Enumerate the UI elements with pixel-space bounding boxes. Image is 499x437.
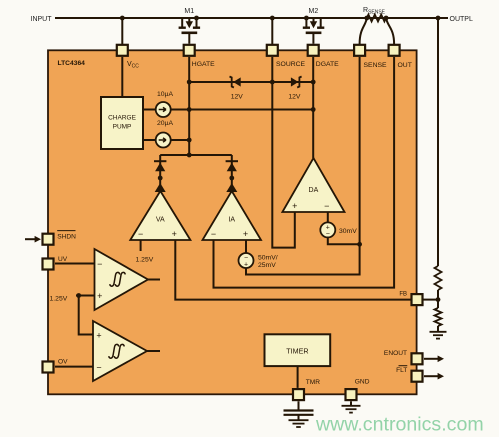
pin SOURCE [267, 45, 278, 56]
svg-text:SENSE: SENSE [364, 62, 388, 69]
wire: RSENSE left lead to SENSE pin [360, 18, 367, 44]
svg-text:−: − [211, 229, 216, 239]
wire: VA- reference stub [140, 240, 142, 251]
pin SENSE [354, 45, 365, 56]
arrow into SHDN [35, 236, 41, 243]
svg-text:OUTPL: OUTPL [450, 16, 473, 23]
wire: ENOUT output arrow line [424, 358, 439, 360]
svg-text:30mV: 30mV [339, 228, 357, 235]
svg-text:−: − [326, 231, 330, 238]
wire: VCC to charge pump [121, 57, 123, 97]
svg-text:OV: OV [58, 359, 68, 366]
timer block [265, 334, 331, 366]
wire: OV comparator output stub [147, 350, 160, 352]
op-amp VA [130, 191, 190, 240]
wire: DGATE vertical / DA output [312, 57, 314, 158]
capacitor on TMR [284, 411, 314, 415]
svg-text:10µA: 10µA [157, 91, 173, 98]
svg-text:PUMP: PUMP [113, 124, 132, 131]
svg-text:INPUT: INPUT [31, 16, 53, 23]
resistor: FB divider upper [435, 266, 442, 290]
pin FLT [412, 371, 423, 382]
wire: OUT right rail down to divider [437, 18, 439, 266]
svg-text:−: − [324, 201, 329, 211]
IC body LTC4364 [48, 50, 417, 394]
svg-text:DGATE: DGATE [316, 61, 339, 68]
svg-text:1.25V: 1.25V [136, 257, 154, 264]
hysteresis symbol OV [109, 344, 125, 358]
wire: divider middle segments [437, 290, 439, 308]
svg-text:FLT: FLT [396, 367, 407, 374]
svg-text:M1: M1 [184, 8, 194, 15]
svg-text:HGATE: HGATE [192, 61, 215, 68]
wire: FB pin to divider [424, 299, 439, 301]
wire: OUT pin down to IA- [214, 57, 395, 288]
wire: zener clamp rail 12V [189, 81, 313, 83]
current source 10uA [156, 102, 171, 117]
wire: HGATE vertical [188, 57, 190, 155]
resistor: FB divider lower [435, 308, 442, 326]
wire: GND pin to ground [350, 401, 352, 405]
svg-text:+: + [292, 201, 297, 211]
wire: VCC drop [121, 18, 123, 44]
ground: FB divider [430, 332, 447, 339]
zener diode 12V left [230, 77, 244, 101]
ground below TMR capacitor [289, 420, 309, 427]
wire: UV pin to comparator [55, 263, 95, 265]
pin GND [346, 389, 357, 400]
svg-text:+: + [244, 262, 248, 269]
pin FB [412, 294, 423, 305]
svg-text:UV: UV [58, 256, 68, 263]
wire: OV pin to comparator [55, 366, 93, 368]
svg-text:GND: GND [355, 378, 370, 385]
svg-text:12V: 12V [288, 94, 301, 101]
svg-text:VA: VA [156, 217, 165, 224]
svg-text:TIMER: TIMER [286, 347, 308, 356]
wire: 10uA line charge pump to rails [143, 109, 313, 111]
svg-text:12V: 12V [231, 94, 244, 101]
wire: SENSE vertical to 50mV source and IA+ [246, 57, 360, 275]
ground below GND pin [342, 406, 361, 413]
wire: 20uA line [143, 139, 189, 141]
current source 20uA [156, 133, 171, 148]
wire: TMR pin to capacitor [298, 401, 300, 410]
wire: SOURCE drop [271, 18, 273, 44]
svg-text:+: + [97, 291, 102, 301]
op-amp DA [282, 158, 344, 212]
resistor RSENSE [367, 15, 386, 22]
wire: divider bottom to ground [437, 326, 439, 332]
svg-text:50mV/: 50mV/ [258, 255, 278, 262]
pin TMR [293, 389, 304, 400]
wire: top input rail [55, 17, 448, 19]
pin UV [43, 259, 54, 270]
svg-text:IA: IA [228, 217, 235, 224]
node: junction dots [76, 16, 440, 302]
pin HGATE [184, 45, 195, 56]
wire: capacitor to ground [298, 415, 300, 420]
wire: UV comparator output stub [148, 279, 160, 281]
svg-text:M2: M2 [309, 8, 319, 15]
svg-text:+: + [96, 330, 101, 340]
svg-text:TMR: TMR [306, 379, 321, 386]
svg-text:CHARGE: CHARGE [108, 115, 136, 122]
wire: SOURCE vertical into DA+ [272, 57, 295, 248]
svg-text:−: − [97, 259, 102, 269]
pin OUT [389, 45, 400, 56]
transistor M2 [303, 18, 325, 44]
wire: RSENSE right lead to OUT pin [386, 18, 394, 44]
voltage source 30mV [320, 222, 335, 237]
wire: TIMER to TMR pin [297, 366, 299, 388]
svg-text:ENOUT: ENOUT [384, 350, 407, 357]
wire: FLT output arrow line [424, 375, 439, 377]
svg-text:20µA: 20µA [157, 120, 173, 127]
svg-text:1.25V: 1.25V [50, 296, 68, 303]
wire: IA+ stub above 50mV source [245, 240, 247, 253]
wire: IA diode stack vertical [231, 155, 233, 191]
wire: VA diode stack vertical [159, 155, 161, 191]
voltage source 50mV/25mV [239, 253, 254, 268]
svg-text:www.cntronics.com: www.cntronics.com [315, 414, 484, 436]
wire: DA- to 30mV source [328, 212, 360, 244]
pin OV [43, 362, 54, 373]
hysteresis symbol UV [110, 272, 126, 286]
transistor M1 [179, 18, 201, 44]
wire: FB line to VA+ [175, 240, 410, 300]
arrow out of ENOUT [438, 356, 444, 363]
arrow out of FLT [438, 373, 444, 380]
op-amp IA [203, 191, 262, 240]
svg-text:25mV: 25mV [258, 262, 276, 269]
pin DGATE [308, 45, 319, 56]
svg-text:+: + [243, 229, 248, 239]
pin ENOUT [412, 353, 423, 364]
svg-text:FB: FB [399, 291, 407, 297]
diode: IA gate-drive [226, 161, 238, 192]
comparator OV [93, 321, 147, 381]
diode: VA gate-drive [154, 161, 166, 192]
svg-text:OUT: OUT [398, 62, 412, 69]
wire: 1.25V reference to UV+ and OV+ [76, 296, 95, 335]
svg-text:−: − [138, 229, 143, 239]
comparator UV [95, 249, 149, 310]
pin VCC [117, 45, 128, 56]
svg-text:DA: DA [309, 187, 319, 194]
svg-text:SHDN: SHDN [57, 233, 76, 240]
wire: SHDN input arrow line [25, 238, 36, 240]
wire: gate-drive diode rail [160, 154, 232, 156]
svg-text:LTC4364: LTC4364 [58, 60, 86, 67]
svg-text:−: − [96, 362, 101, 372]
pin SHDN [43, 234, 54, 245]
charge pump U1 [101, 97, 143, 149]
svg-text:+: + [172, 229, 177, 239]
svg-text:SOURCE: SOURCE [276, 61, 306, 68]
zener diode 12V right [288, 77, 301, 101]
